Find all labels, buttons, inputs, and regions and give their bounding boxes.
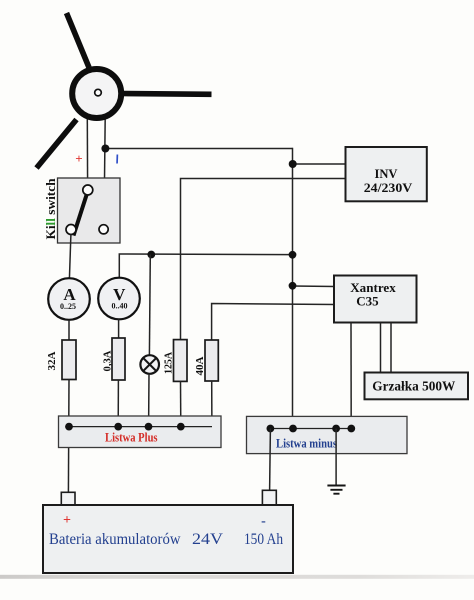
wire: 0,3A fuse to plus bus: [117, 380, 119, 427]
label I (minus lead mark, blue): [116, 154, 118, 163]
svg-text:Listwa minus: Listwa minus: [276, 437, 337, 451]
wire: turbine left (+) lead down to kill switch: [86, 117, 88, 186]
node: minus bus dot 4: [347, 425, 355, 433]
wire: Listwa minus to battery minus terminal: [269, 429, 272, 492]
wire: Listwa minus to ground: [335, 429, 337, 486]
node: plus bus dot 3: [145, 423, 153, 431]
node: minus bus dot 1: [267, 425, 275, 433]
svg-text:125A: 125A: [164, 352, 175, 374]
wire: lamp drop from tap: [148, 255, 151, 357]
node: minus bus dot 2: [289, 425, 297, 433]
minus bus internal line: [270, 428, 351, 430]
svg-text:+: +: [63, 513, 71, 528]
kill switch lower-left terminal: [66, 225, 76, 235]
wire: 40A feed vertical + horizontal to Xantrex: [212, 304, 335, 342]
fuse 40A body: [205, 340, 218, 381]
node: minus bus dot 3: [332, 425, 340, 433]
voltmeter V circle: [98, 278, 140, 320]
ground symbol: [327, 485, 345, 487]
kill switch box: [58, 178, 121, 243]
battery minus terminal: [262, 490, 276, 505]
plus bus internal line: [69, 426, 212, 428]
svg-text:Grzałka 500W: Grzałka 500W: [372, 380, 455, 395]
node: junction minus rail / V line: [289, 251, 297, 259]
wire: 125A feed vertical + horizontal to INV: [181, 179, 346, 341]
kill switch lever: [74, 194, 88, 236]
svg-text:40A: 40A: [195, 356, 206, 375]
node: plus bus dot 4: [177, 423, 185, 431]
lamp symbol X: [143, 358, 156, 371]
node: junction minus rail / Xantrex: [289, 282, 297, 290]
wire: 125A fuse to plus bus: [180, 381, 182, 426]
wire: A meter to 32A fuse: [68, 320, 70, 341]
wind turbine rotor: blade lower-left: [37, 120, 77, 169]
wire: lamp to plus bus: [148, 374, 150, 427]
wire: Xantrex minus input: [293, 285, 336, 288]
svg-text:32A: 32A: [47, 351, 58, 370]
svg-text:Kill switch: Kill switch: [43, 178, 58, 240]
wire: 32A fuse down to battery plus terminal: [67, 380, 70, 493]
battery plus terminal: [61, 492, 75, 505]
node: lamp tap junction: [147, 251, 155, 259]
kill switch lower-right terminal: [99, 225, 108, 234]
svg-text:C35: C35: [356, 294, 379, 309]
wire: 40A fuse to plus bus: [211, 381, 213, 427]
ammeter A circle: [48, 278, 90, 320]
lamp symbol circle: [140, 355, 159, 374]
fuse 32A body: [62, 340, 76, 380]
wind turbine hub center dot: [95, 89, 102, 96]
wire: minus rail vertical: [292, 148, 294, 429]
svg-text:-: -: [261, 514, 266, 529]
bus bar Listwa minus box: [247, 416, 408, 453]
svg-text:Listwa Plus: Listwa Plus: [105, 431, 158, 445]
node: plus bus dot 2: [114, 423, 122, 431]
fuse 0,3A body: [112, 338, 125, 380]
wire: voltmeter top to minus line: [119, 254, 292, 278]
svg-text:INV: INV: [375, 166, 399, 181]
wire: kill switch to ammeter: [69, 235, 71, 280]
wind turbine hub circle: [72, 69, 121, 118]
battery box: [43, 505, 293, 573]
svg-text:Bateria akumulatorów24V150 Ah: Bateria akumulatorów24V150 Ah: [49, 531, 283, 548]
svg-text:0,3A: 0,3A: [103, 350, 114, 371]
wire: V meter to 0,3A fuse: [118, 319, 120, 339]
wire: Xantrex dump load lead 2: [390, 323, 392, 374]
svg-text:24/230V: 24/230V: [364, 180, 413, 195]
kill switch top terminal: [83, 185, 93, 195]
bus bar Listwa Plus box: [59, 416, 222, 448]
fuse 125A body: [174, 340, 188, 382]
node: plus bus dot 1: [65, 423, 73, 431]
svg-text:0..25: 0..25: [60, 302, 76, 311]
wire: Xantrex battery minus lead down to Listwa minus: [350, 323, 352, 429]
wire: INV minus input: [293, 163, 346, 165]
node: junction minus rail / INV: [289, 160, 297, 168]
svg-text:+: +: [75, 151, 82, 166]
wire: Xantrex dump load lead 1: [380, 323, 382, 374]
wire: turbine right lead down to kill switch lower-right terminal: [104, 117, 105, 225]
heater Grzalka 500W box: [365, 373, 469, 400]
svg-text:0..40: 0..40: [112, 302, 128, 311]
node: junction on turbine right lead: [101, 145, 109, 153]
wire: top horizontal from junction to minus rail: [105, 148, 292, 150]
inverter INV box: [346, 147, 427, 201]
charge controller Xantrex C35 box: [334, 276, 417, 323]
wind turbine rotor: blade upper-left: [67, 13, 90, 68]
wind turbine rotor: blade right: [121, 91, 212, 97]
